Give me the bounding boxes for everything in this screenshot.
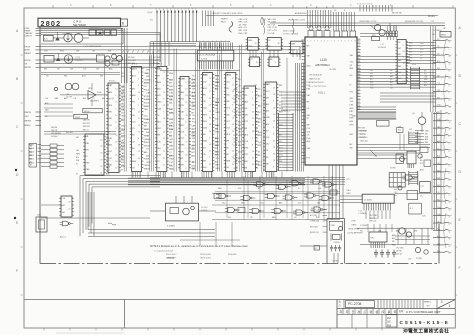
- svg-text:JRL: JRL: [443, 28, 446, 30]
- svg-text:19: 19: [163, 105, 165, 107]
- svg-text:SL L,TL,PT,PL,TOL: SL L,TL,PT,PL,TOL: [309, 86, 327, 88]
- svg-text:MREQ: MREQ: [25, 125, 31, 127]
- svg-text:RxD: RxD: [181, 118, 185, 120]
- svg-text:D07: D07: [70, 69, 73, 71]
- svg-text:21: 21: [115, 155, 117, 157]
- svg-text:27: 27: [358, 95, 360, 97]
- svg-text:P12: P12: [360, 231, 363, 233]
- svg-text:A10: A10: [425, 138, 428, 141]
- svg-text:4.7: 4.7: [410, 208, 413, 210]
- svg-text:AD4: AD4: [82, 75, 86, 78]
- svg-text:12: 12: [358, 67, 360, 69]
- svg-text:9: 9: [252, 98, 253, 100]
- svg-text:XTAL: XTAL: [331, 224, 335, 227]
- svg-text:Q3: Q3: [390, 88, 392, 90]
- svg-text:L173: L173: [76, 57, 80, 59]
- svg-text:RFS WE: RFS WE: [358, 128, 366, 130]
- svg-text:VCC: VCC: [170, 169, 175, 171]
- svg-text:2: 2: [203, 41, 204, 43]
- svg-text:L172 PERIPHERAL: L172 PERIPHERAL: [84, 45, 103, 48]
- svg-text:CK2: CK2: [226, 128, 230, 130]
- svg-text:12: 12: [232, 118, 234, 120]
- svg-text:22: 22: [100, 146, 102, 148]
- svg-text:8: 8: [188, 9, 189, 11]
- svg-text:RxD: RxD: [191, 109, 195, 111]
- svg-text:A10: A10: [266, 123, 269, 126]
- svg-text:DEN 4 2: DEN 4 2: [84, 111, 90, 113]
- svg-text:3: 3: [138, 98, 139, 100]
- svg-text:RAS: RAS: [234, 157, 239, 160]
- svg-text:TxD: TxD: [234, 129, 238, 131]
- svg-text:AD4: AD4: [278, 187, 281, 190]
- svg-text:BSY: BSY: [350, 98, 355, 100]
- svg-text:7: 7: [403, 57, 404, 59]
- svg-text:23: 23: [449, 188, 451, 190]
- svg-text:21: 21: [138, 118, 140, 120]
- svg-text:7: 7: [163, 79, 164, 81]
- svg-text:AD4: AD4: [45, 102, 48, 105]
- svg-text:WR/TE: WR/TE: [25, 121, 32, 123]
- svg-text:12: 12: [68, 208, 70, 210]
- svg-text:21: 21: [209, 78, 211, 80]
- svg-text:b. Capacitors-in-farad:: b. Capacitors-in-farad:: [154, 250, 173, 253]
- svg-text:9: 9: [185, 168, 186, 170]
- svg-text:TxD: TxD: [170, 119, 174, 121]
- svg-text:5: 5: [403, 45, 404, 47]
- svg-text:CAS: CAS: [255, 114, 260, 117]
- svg-text:TxD: TxD: [350, 62, 354, 64]
- svg-text:[ 9JL ]: [ 9JL ]: [318, 92, 325, 95]
- svg-text:A RW: A RW: [25, 49, 30, 52]
- svg-text:17: 17: [163, 151, 165, 153]
- svg-text:TxD: TxD: [307, 131, 311, 133]
- svg-text:F: F: [459, 266, 461, 270]
- svg-text:38: 38: [358, 86, 360, 88]
- svg-text:7: 7: [307, 41, 308, 43]
- svg-text:C P U CONTROLLER UNIT: C P U CONTROLLER UNIT: [406, 310, 441, 314]
- svg-text:4: 4: [449, 115, 450, 117]
- svg-text:RST (29): RST (29): [310, 226, 318, 228]
- svg-text:RFS: RFS: [146, 162, 151, 164]
- svg-text:P12: P12: [398, 130, 401, 132]
- svg-text:23: 23: [449, 56, 451, 58]
- svg-text:A10: A10: [157, 88, 160, 91]
- svg-text:28: 28: [273, 94, 275, 96]
- svg-text:Q3: Q3: [132, 128, 135, 130]
- svg-text:GND: GND: [146, 79, 151, 81]
- svg-text:RFS P12: RFS P12: [83, 123, 90, 125]
- svg-text:UNKNOWN L11T06: UNKNOWN L11T06: [288, 20, 305, 22]
- svg-text:17: 17: [449, 195, 451, 197]
- svg-text:D07: D07: [409, 49, 412, 51]
- svg-text:4066 L1T2066: 4066 L1T2066: [283, 31, 295, 33]
- svg-text:17: 17: [252, 118, 254, 120]
- svg-text:RW: RW: [181, 165, 184, 167]
- svg-text:A10: A10: [109, 104, 112, 107]
- svg-text:31: 31: [449, 231, 451, 233]
- svg-text:AB RW: AB RW: [51, 126, 57, 129]
- svg-text:F: F: [16, 269, 18, 273]
- svg-text:INT GND: INT GND: [153, 57, 161, 59]
- svg-text:(C)TRL/REFRESH: (C)TRL/REFRESH: [348, 233, 364, 235]
- svg-text:A10: A10: [266, 103, 269, 106]
- svg-text:P12: P12: [424, 82, 427, 84]
- svg-text:RTE!: RTE!: [352, 220, 357, 222]
- svg-text:4802: 4802: [226, 75, 232, 77]
- svg-text:RW: RW: [255, 118, 258, 120]
- svg-text:2: 2: [403, 75, 404, 77]
- svg-text:D07 Q3: D07 Q3: [396, 254, 402, 256]
- svg-text:DB1: DB1: [398, 60, 402, 62]
- svg-text:C54 C56 L52: C54 C56 L52: [90, 28, 101, 30]
- svg-text:27: 27: [273, 121, 275, 123]
- svg-text:RxD: RxD: [181, 99, 185, 101]
- svg-text:GND: GND: [238, 128, 243, 130]
- svg-text:1: 1: [138, 72, 139, 74]
- svg-text:9: 9: [338, 41, 339, 43]
- svg-text:RES: RES: [169, 73, 174, 75]
- svg-text:RW: RW: [106, 154, 109, 156]
- svg-text:3: 3: [324, 41, 325, 43]
- svg-text:ST: ST: [298, 188, 300, 190]
- svg-text:RESET: RESET: [25, 53, 32, 55]
- svg-text:14: 14: [100, 140, 102, 142]
- svg-text:AB0: AB0: [392, 234, 395, 237]
- svg-text:2: 2: [115, 108, 116, 110]
- svg-text:RxD: RxD: [215, 118, 219, 120]
- svg-text:OE RD: OE RD: [396, 251, 402, 253]
- svg-text:20: 20: [185, 155, 187, 157]
- svg-text:9: 9: [163, 85, 164, 87]
- svg-text:23: 23: [68, 202, 70, 204]
- svg-text:P12: P12: [438, 120, 441, 122]
- svg-text:6: 6: [185, 122, 186, 124]
- svg-text:WR MEMW: WR MEMW: [90, 101, 99, 103]
- svg-text:15: 15: [358, 89, 360, 91]
- svg-text:GND: GND: [248, 40, 253, 42]
- svg-text:BSY: BSY: [350, 111, 355, 113]
- svg-text:L/94LS8: L/94LS8: [167, 257, 174, 259]
- svg-text:1: 1: [441, 300, 443, 304]
- svg-text:RES: RES: [146, 139, 151, 141]
- svg-text:JRCS SuS B: JRCS SuS B: [200, 257, 212, 259]
- svg-text:9: 9: [156, 9, 157, 11]
- svg-text:Q3: Q3: [438, 252, 440, 254]
- svg-text:2.8 CMOS: 2.8 CMOS: [433, 30, 442, 32]
- svg-text:A10 > CS: A10 > CS: [239, 26, 248, 29]
- svg-text:7: 7: [174, 9, 175, 11]
- svg-text:B5: B5: [30, 162, 32, 164]
- svg-text:P12: P12: [181, 138, 184, 140]
- svg-text:L172 uPD2166A: L172 uPD2166A: [199, 54, 216, 57]
- svg-text:D07: D07: [228, 217, 231, 219]
- svg-text:RW: RW: [437, 68, 440, 70]
- svg-text:UNKNOWN L11 T06: UNKNOWN L11 T06: [359, 21, 376, 23]
- svg-text:RxD: RxD: [226, 114, 230, 116]
- svg-text:24: 24: [209, 144, 211, 146]
- svg-text:RL7TR: RL7TR: [66, 97, 72, 99]
- svg-text:AD4: AD4: [181, 91, 185, 94]
- svg-text:1: 1: [195, 9, 196, 11]
- svg-text:6: 6: [225, 41, 226, 43]
- svg-text:4: 4: [358, 48, 359, 50]
- svg-text:S/94LS08: S/94LS08: [228, 254, 236, 256]
- svg-text:B4: B4: [30, 158, 32, 160]
- svg-text:11: 11: [100, 173, 102, 175]
- svg-text:17: 17: [163, 164, 165, 166]
- svg-text:CAS: CAS: [169, 121, 174, 124]
- svg-text:24: 24: [449, 63, 451, 65]
- svg-text:19: 19: [163, 145, 165, 147]
- svg-text:AB0: AB0: [132, 94, 136, 97]
- svg-text:27: 27: [115, 141, 117, 143]
- svg-text:26: 26: [449, 42, 451, 44]
- svg-text:16: 16: [232, 124, 234, 126]
- svg-text:18: 18: [403, 63, 405, 65]
- svg-text:3: 3: [216, 41, 217, 43]
- svg-text:9: 9: [232, 104, 233, 106]
- svg-text:RFS: RFS: [170, 155, 175, 157]
- svg-text:5: 5: [449, 49, 450, 51]
- svg-text:RES RES: RES RES: [358, 131, 367, 133]
- svg-text:4: 4: [138, 138, 139, 140]
- svg-text:CAS: CAS: [191, 125, 196, 128]
- svg-text:40: 40: [449, 246, 451, 248]
- svg-text:26: 26: [185, 115, 187, 117]
- svg-text:B6: B6: [30, 165, 32, 167]
- svg-text:9: 9: [167, 9, 168, 11]
- svg-text:15: 15: [163, 138, 165, 140]
- svg-text:日: 日: [352, 310, 355, 314]
- svg-text:CLMSYCR,R,LD: CLMSYCR,R,LD: [309, 82, 324, 84]
- svg-text:CLK: CLK: [279, 151, 284, 153]
- svg-text:PPOE: PPOE: [25, 46, 31, 48]
- svg-text:21: 21: [358, 42, 360, 44]
- svg-text:3: 3: [115, 122, 116, 124]
- svg-text:A-B-C 1: A-B-C 1: [60, 236, 66, 239]
- svg-text:BSY: BSY: [170, 149, 175, 151]
- svg-text:27: 27: [163, 158, 165, 160]
- svg-text:BSY: BSY: [255, 102, 260, 104]
- svg-text:S 1: S 1: [264, 19, 267, 21]
- svg-text:RW: RW: [108, 51, 111, 53]
- svg-text:2: 2: [209, 157, 210, 159]
- svg-text:24: 24: [232, 164, 234, 166]
- svg-text:A 10(H): A 10(H): [51, 135, 57, 138]
- svg-text:13: 13: [138, 112, 140, 114]
- svg-text:INT > Q3: INT > Q3: [268, 23, 276, 26]
- svg-text:7: 7: [138, 105, 139, 107]
- svg-text:15: 15: [138, 151, 140, 153]
- svg-text:12: 12: [252, 105, 254, 107]
- svg-text:14: 14: [115, 115, 117, 117]
- svg-text:5: 5: [331, 41, 332, 43]
- svg-text:14: 14: [163, 118, 165, 120]
- svg-text:3: 3: [185, 141, 186, 143]
- svg-text:CN8: CN8: [37, 215, 41, 217]
- svg-text:CK2 > CS: CK2 > CS: [239, 18, 248, 21]
- svg-text:DB1: DB1: [317, 203, 320, 205]
- svg-text:5: 5: [358, 57, 359, 59]
- svg-text:RD/TE: RD/TE: [25, 60, 32, 62]
- svg-text:C-MOS L: C-MOS L: [333, 242, 340, 244]
- svg-text:14: 14: [358, 76, 360, 78]
- svg-text:RxD: RxD: [121, 76, 125, 78]
- svg-text:RES: RES: [121, 136, 126, 138]
- svg-text:INT: INT: [390, 82, 393, 84]
- svg-text:VCC DB1: VCC DB1: [369, 215, 377, 217]
- svg-text:CLOCK (75): CLOCK (75): [310, 210, 321, 212]
- svg-text:3: 3: [273, 101, 274, 103]
- svg-text:GND: GND: [157, 102, 162, 104]
- svg-text:SHEET: SHEET: [424, 301, 431, 303]
- svg-text:17: 17: [209, 91, 211, 93]
- svg-text:5: 5: [138, 79, 139, 81]
- svg-text:月: 月: [346, 310, 349, 314]
- svg-text:VR: VR: [371, 238, 374, 240]
- svg-text:RFS RES: RFS RES: [128, 60, 137, 62]
- svg-text:AB0: AB0: [396, 230, 399, 233]
- svg-text:TxD: TxD: [106, 163, 110, 165]
- svg-text:-8 CML: -8 CML: [329, 69, 337, 71]
- svg-text:AB0: AB0: [157, 81, 161, 84]
- svg-text:RxD: RxD: [192, 79, 196, 81]
- svg-text:RW: RW: [146, 165, 149, 167]
- svg-text:沖電気工業株式会社: 沖電気工業株式会社: [403, 327, 449, 334]
- svg-text:10: 10: [163, 92, 165, 94]
- svg-text:20: 20: [232, 91, 234, 93]
- svg-text:VCC: VCC: [266, 91, 271, 93]
- svg-text:RT5C15: RT5C15: [109, 81, 115, 83]
- svg-text:22: 22: [255, 43, 257, 45]
- svg-text:9: 9: [185, 148, 186, 150]
- svg-text:7: 7: [181, 9, 182, 11]
- svg-text:SEL: SEL: [398, 54, 402, 56]
- svg-text:者: 者: [370, 310, 373, 314]
- svg-text:16: 16: [138, 158, 140, 160]
- svg-text:12: 12: [138, 125, 140, 127]
- svg-text:VCC: VCC: [238, 95, 243, 97]
- svg-text:17: 17: [185, 89, 187, 91]
- svg-text:DB1 RW: DB1 RW: [83, 126, 90, 128]
- svg-text:8: 8: [273, 127, 274, 129]
- svg-text:2: 2: [344, 41, 345, 43]
- svg-text:B2: B2: [315, 248, 317, 250]
- svg-text:9: 9: [317, 41, 318, 43]
- svg-text:RFS: RFS: [76, 154, 81, 156]
- svg-text:1: 1: [449, 304, 451, 308]
- svg-text:8: 8: [449, 151, 450, 153]
- svg-text:DB1: DB1: [157, 128, 161, 130]
- svg-text:IO > EN: IO > EN: [268, 32, 275, 35]
- svg-text:25: 25: [209, 98, 211, 100]
- svg-text:10: 10: [252, 164, 254, 166]
- svg-text:(UNKNOWN L11 T06): (UNKNOWN L11 T06): [405, 21, 424, 23]
- svg-text:GND: GND: [234, 96, 239, 98]
- svg-text:Q3: Q3: [203, 147, 206, 149]
- svg-text:uPD7800xx: uPD7800xx: [315, 63, 330, 67]
- svg-text:DB1: DB1: [378, 231, 381, 233]
- svg-text:470-6 SuS T: 470-6 SuS T: [166, 254, 177, 256]
- svg-text:12: 12: [115, 89, 117, 91]
- svg-text:SEL: SEL: [226, 95, 230, 97]
- svg-text:3: 3: [321, 41, 322, 43]
- svg-text:RxD EN: RxD EN: [66, 132, 73, 134]
- svg-text:A10: A10: [245, 133, 248, 136]
- svg-text:2: 2: [348, 41, 349, 43]
- svg-text:BSY > RD: BSY > RD: [239, 29, 248, 32]
- svg-text:STRNGS: STRNGS: [378, 47, 387, 49]
- svg-text:AD4: AD4: [245, 100, 249, 103]
- svg-text:10: 10: [273, 114, 275, 116]
- svg-text:GND: GND: [121, 126, 126, 128]
- svg-text:Q8: Q8: [412, 113, 414, 115]
- svg-text:4: 4: [358, 92, 359, 94]
- svg-text:CAS: CAS: [255, 120, 260, 123]
- svg-text:C13: C13: [431, 21, 434, 23]
- svg-text:RFS: RFS: [350, 124, 355, 126]
- svg-text:20: 20: [138, 92, 140, 94]
- svg-text:20: 20: [273, 160, 275, 162]
- svg-text:L110: L110: [320, 58, 327, 62]
- svg-text:32: 32: [449, 166, 451, 168]
- svg-text:CK2: CK2: [226, 108, 230, 110]
- svg-text:VCC: VCC: [255, 135, 260, 137]
- svg-text:CK2 > TxD: CK2 > TxD: [268, 26, 278, 29]
- svg-text:JRCS SuS B: JRCS SuS B: [200, 254, 212, 256]
- svg-text:24: 24: [163, 131, 165, 133]
- svg-text:8: 8: [185, 161, 186, 163]
- svg-text:GRAPH: GRAPH: [221, 18, 228, 21]
- svg-text:D07: D07: [370, 82, 373, 84]
- svg-text:Q3: Q3: [294, 217, 296, 219]
- svg-text:1 2 3 4 5 6 7 8 9 10: 1 2 3 4 5 6 7 8 9 10: [357, 4, 373, 6]
- svg-text:7: 7: [177, 9, 178, 11]
- svg-text:印: 印: [382, 310, 385, 314]
- svg-text:RES: RES: [106, 140, 111, 142]
- svg-text:RW: RW: [181, 105, 184, 107]
- svg-text:TONE (24): TONE (24): [310, 221, 319, 223]
- svg-text:RW: RW: [234, 142, 237, 144]
- svg-text:AD4: AD4: [109, 91, 113, 94]
- svg-text:21: 21: [209, 151, 211, 153]
- svg-text:SE79328: SE79328: [73, 23, 86, 27]
- svg-text:D07: D07: [96, 69, 99, 71]
- svg-text:L174: L174: [157, 69, 163, 71]
- svg-text:28: 28: [252, 131, 254, 133]
- svg-text:RFS: RFS: [238, 158, 243, 160]
- svg-text:0 8: 0 8: [375, 156, 378, 158]
- svg-text:17: 17: [449, 224, 451, 226]
- svg-text:7: 7: [358, 64, 359, 66]
- svg-text:25: 25: [209, 124, 211, 126]
- svg-text:B2: B2: [30, 152, 32, 154]
- svg-text:CK2: CK2: [266, 144, 270, 146]
- svg-text:DB1: DB1: [425, 136, 429, 138]
- svg-text:16: 16: [449, 253, 451, 255]
- svg-text:9: 9: [185, 108, 186, 110]
- svg-text:D07: D07: [76, 51, 79, 53]
- svg-text:WE > D07: WE > D07: [268, 18, 277, 21]
- svg-text:WE RES: WE RES: [428, 16, 436, 18]
- svg-text:RAS: RAS: [170, 158, 175, 161]
- svg-text:22: 22: [209, 104, 211, 106]
- svg-text:29L: 29L: [432, 34, 435, 36]
- svg-text:L3001: L3001: [75, 117, 80, 119]
- svg-text:1: 1: [185, 135, 186, 137]
- svg-text:CZECH: CZECH: [25, 35, 32, 37]
- svg-text:D07: D07: [398, 48, 401, 50]
